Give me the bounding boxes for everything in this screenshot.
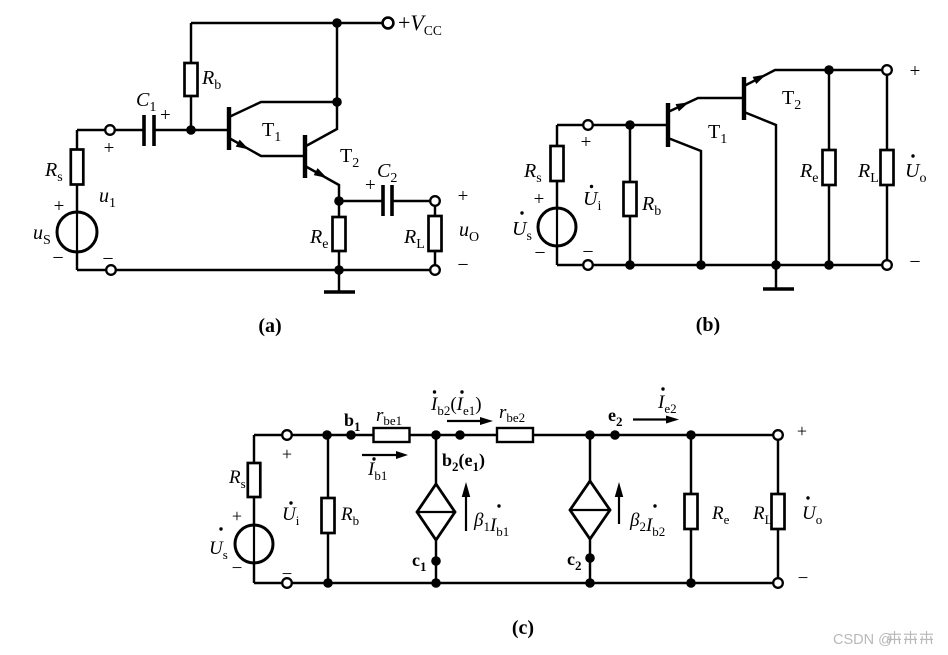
svg-text:+: + [797,421,807,441]
svg-text:−: − [102,248,113,270]
svg-text:−: − [582,241,593,263]
svg-text:−: − [534,242,545,264]
svg-text:−: − [457,254,468,276]
svg-text:+: + [581,132,592,153]
svg-text:+: + [910,61,921,82]
svg-text:−: − [282,564,293,585]
svg-text:CSDN @: CSDN @ [833,632,893,648]
svg-text:+: + [232,506,242,526]
svg-text:+: + [458,186,469,207]
svg-text:+: + [365,175,376,196]
svg-text:+: + [160,105,171,126]
svg-text:(b): (b) [696,314,720,336]
svg-text:(c): (c) [512,617,534,639]
svg-text:+: + [54,196,65,217]
svg-text:+: + [534,189,545,210]
svg-text:−: − [52,247,63,269]
svg-text:−: − [798,568,809,589]
svg-text:−: − [232,558,243,579]
svg-text:+: + [104,138,115,159]
svg-text:(a): (a) [258,315,281,337]
svg-text:+: + [282,444,292,464]
svg-text:−: − [909,251,920,273]
